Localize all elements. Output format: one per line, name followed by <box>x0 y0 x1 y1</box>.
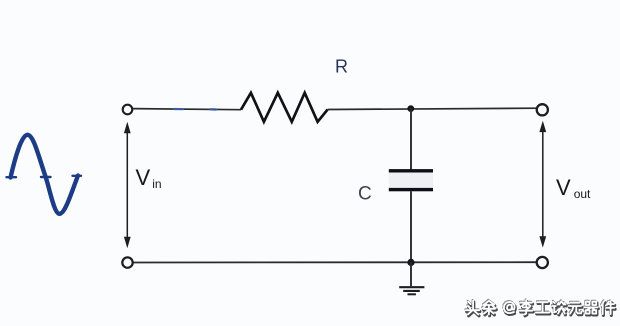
wire: top-left rail <box>133 109 241 110</box>
node: top junction <box>407 105 414 112</box>
terminal: output bottom <box>537 257 548 268</box>
wire: capacitor bottom lead <box>410 191 412 262</box>
Vout measurement arrow <box>539 121 546 248</box>
wire: bottom rail <box>133 261 537 263</box>
Vin measurement arrow <box>124 122 131 248</box>
svg-text:C: C <box>358 184 372 205</box>
capacitor dielectric highlight <box>389 170 433 190</box>
svg-text:R: R <box>335 57 348 77</box>
blue ink mark 2 on wire <box>211 108 217 111</box>
capacitor C top plate <box>389 169 433 172</box>
resistor R <box>241 93 328 122</box>
terminal: input bottom <box>122 257 132 267</box>
terminal: input top <box>123 105 133 115</box>
ground <box>399 287 424 294</box>
terminal: output top <box>537 104 548 115</box>
blue ink mark 1 on wire <box>174 108 183 110</box>
wire: top rail right of resistor <box>328 108 537 109</box>
wire: capacitor top lead <box>410 109 412 170</box>
input source sine wave <box>7 135 82 214</box>
capacitor C bottom plate <box>389 188 433 191</box>
watermark 头条@李工谈元器件 <box>465 299 615 316</box>
wire: ground stub <box>410 262 412 286</box>
node: bottom junction <box>407 259 414 266</box>
